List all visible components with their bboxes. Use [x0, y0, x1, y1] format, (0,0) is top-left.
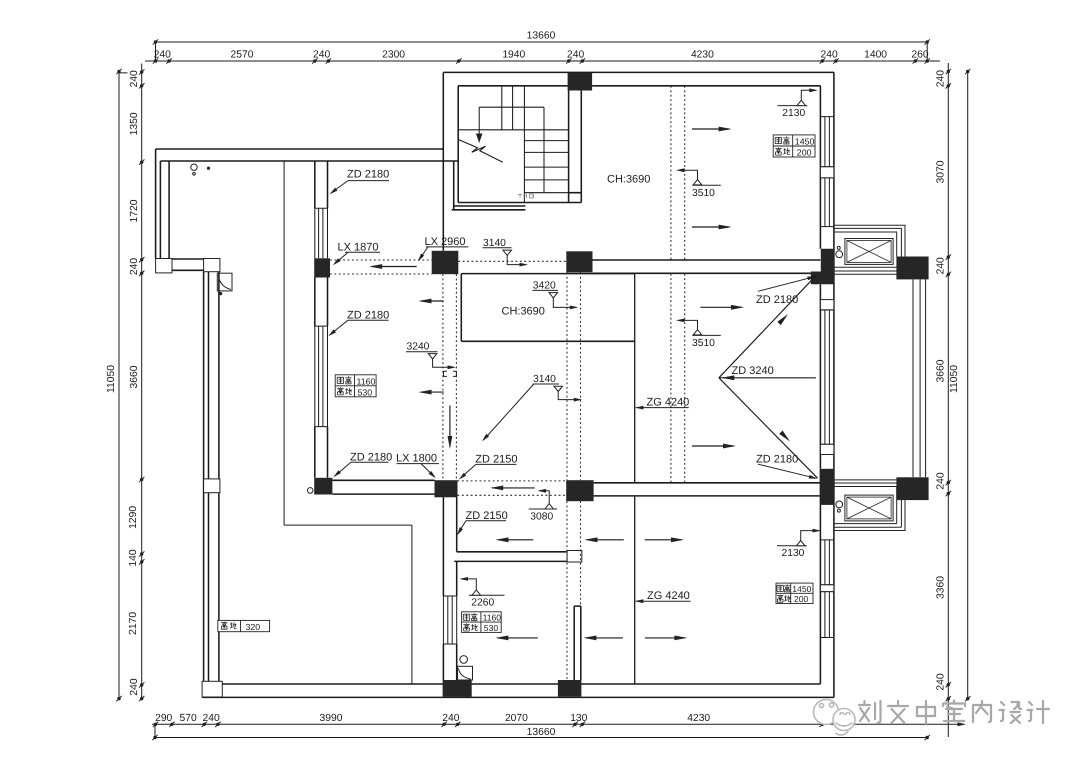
elevation flag 2260: [469, 594, 505, 596]
svg-text:240: 240: [821, 50, 838, 61]
svg-text:200: 200: [794, 594, 809, 604]
svg-text:240: 240: [129, 70, 140, 87]
svg-text:4230: 4230: [691, 50, 714, 61]
arrow left lower room row2 a: [498, 637, 538, 639]
fan arrow diagonal down: [719, 378, 818, 478]
svg-text:3990: 3990: [320, 713, 343, 724]
stairwell east wall with end cap: [569, 91, 582, 203]
right total dimension line 11050: [967, 70, 969, 699]
svg-text:260: 260: [911, 50, 928, 61]
column east corridor lower: [896, 477, 928, 500]
svg-text:2260: 2260: [471, 598, 494, 609]
table 窗高1450/离地200 bottom-right: [776, 583, 813, 603]
svg-text:3420: 3420: [533, 281, 556, 292]
svg-text:320: 320: [246, 622, 261, 632]
top wall outer face: [443, 71, 834, 73]
middle wall y=260-273 east part: [593, 260, 821, 273]
table 窗高1160/离地530 bottom-middle: [462, 612, 502, 633]
column west window wall top: [314, 258, 330, 277]
dashed beam line foyer top: [458, 260, 566, 262]
right wall sill box 3: [820, 444, 834, 454]
door swing upper-left: [217, 273, 232, 291]
svg-text:3070: 3070: [936, 160, 947, 183]
svg-text:ZD 3240: ZD 3240: [732, 365, 774, 377]
dashed beam LX1870 opening: [330, 260, 432, 274]
right wall window middle: [820, 310, 834, 444]
right wall sill box 4: [820, 585, 834, 592]
arrow left lower room row2 b: [586, 637, 623, 639]
svg-text:2570: 2570: [231, 50, 254, 61]
upper elevator car: [845, 239, 893, 265]
svg-text:240: 240: [442, 713, 459, 724]
bottom wall inner face: [222, 683, 820, 685]
toilet circle bottom-left: [460, 656, 468, 664]
stairwell bottom band: [452, 203, 569, 210]
left wing top wall: [156, 149, 459, 161]
stair down arrow: [478, 107, 480, 134]
top wall inner face: [458, 85, 820, 87]
mid-left wall y=480-494: [332, 480, 434, 494]
mid-right wall y=483-496: [594, 483, 821, 496]
interior stub wall x=574-581: [574, 606, 581, 680]
column right wall lower: [820, 469, 835, 505]
svg-text:3510: 3510: [692, 338, 715, 349]
dotted beam lines pair A x=443,456: [443, 274, 457, 480]
svg-text:3660: 3660: [129, 365, 140, 388]
right segment dimension line: [947, 63, 949, 737]
arrow right top-right room 1: [692, 128, 729, 130]
arrow right mid-right room 1: [700, 306, 741, 308]
top segment dimension line: [145, 60, 940, 62]
right wall outer face: [833, 72, 835, 697]
stair treads east flight: [524, 141, 568, 193]
svg-text:3660: 3660: [936, 359, 947, 382]
column west window wall bottom: [314, 478, 332, 495]
svg-text:ZD 2180: ZD 2180: [347, 169, 389, 181]
stairwell west wall: [443, 72, 458, 250]
svg-text:CH:3690: CH:3690: [607, 174, 650, 186]
right wall window lower 2: [820, 592, 834, 638]
column bottom wall west: [443, 680, 472, 697]
stair break line: [459, 140, 503, 163]
svg-text:3510: 3510: [692, 188, 715, 199]
left total dimension line 11050: [119, 72, 128, 699]
right wall window upper 1: [820, 117, 834, 167]
svg-text:240: 240: [203, 713, 220, 724]
table 窗高1450/离地200 top-right: [773, 135, 815, 157]
balcony white column corner: [202, 681, 222, 697]
column foyer bottom-left: [435, 480, 458, 497]
arrow right lower room row2: [645, 637, 685, 639]
svg-text:1450: 1450: [792, 584, 811, 594]
svg-text:240: 240: [936, 673, 947, 690]
svg-text:1350: 1350: [129, 112, 140, 135]
svg-text:570: 570: [180, 713, 197, 724]
table 窗高1160/离地530 west: [335, 375, 376, 397]
arrow left in mid wall band: [493, 487, 535, 489]
svg-text:ZD 2180: ZD 2180: [347, 310, 389, 322]
east corridor wall x=913-926: [913, 279, 926, 477]
column east corridor upper: [896, 257, 928, 280]
bottom total dimension line 13660: [155, 737, 927, 739]
watermark char 刘: [859, 701, 881, 723]
arrow right top-right room 2: [692, 226, 729, 228]
dotted beam lines pair C x=671,685: [671, 86, 685, 483]
column top of stairwell: [568, 73, 593, 91]
svg-text:1400: 1400: [864, 50, 887, 61]
svg-text:CH:3690: CH:3690: [502, 306, 545, 318]
svg-text:130: 130: [570, 713, 587, 724]
column bottom wall east: [558, 680, 582, 697]
svg-text:240: 240: [936, 257, 947, 274]
column foyer bottom-right: [566, 480, 593, 501]
svg-text:1450: 1450: [795, 136, 815, 146]
west room window lower: [315, 326, 328, 427]
stair treads north flight: [502, 86, 513, 130]
svg-text:3240: 3240: [407, 342, 430, 353]
svg-text:LX 1800: LX 1800: [396, 453, 437, 465]
svg-text:240: 240: [567, 50, 584, 61]
watermark char 室: [943, 701, 965, 722]
lamp symbol upper-left room: [191, 164, 197, 170]
lower elevator shaft walls: [834, 477, 905, 486]
window wall x=315-328 mid segments: [315, 278, 328, 478]
svg-text:2170: 2170: [128, 612, 139, 635]
balcony white column top: [204, 259, 220, 272]
arrow left west room 2: [421, 391, 444, 393]
stair flight separation line: [523, 86, 525, 203]
thin partition L-shape x=284: [284, 161, 412, 684]
svg-text:240: 240: [129, 258, 140, 275]
lower elevator car: [845, 495, 893, 521]
svg-text:2130: 2130: [782, 108, 805, 119]
right wall window lower 1: [820, 540, 834, 585]
svg-text:240: 240: [129, 678, 140, 695]
svg-text:ZD 2180: ZD 2180: [756, 294, 798, 306]
wing corner box: [156, 259, 172, 273]
elevation flag 3510 upper: [684, 170, 698, 179]
svg-text:1940: 1940: [502, 50, 525, 61]
table 离地320 bottom-left: [218, 620, 270, 631]
svg-text:3140: 3140: [483, 238, 506, 249]
stair landing edge: [458, 129, 568, 131]
top total dimension line 13660: [156, 41, 928, 43]
svg-text:1160: 1160: [483, 613, 502, 623]
interior wall y=552-561: [454, 552, 567, 562]
right wall sill box 2: [820, 300, 834, 310]
left segment dimension line: [141, 64, 143, 701]
watermark char 内: [973, 701, 991, 722]
right wall window upper 2: [820, 178, 834, 227]
window wall x=315-328 upper room: [315, 161, 328, 208]
door pivot circle near west column: [307, 488, 313, 494]
watermark bird logo: [814, 700, 856, 736]
svg-text:13660: 13660: [527, 727, 556, 738]
svg-text:11050: 11050: [106, 365, 117, 393]
svg-text:200: 200: [797, 148, 812, 158]
watermark char 设: [1000, 702, 1022, 723]
elevation flag 3080: [529, 508, 557, 510]
svg-text:ZD 2150: ZD 2150: [475, 453, 517, 465]
svg-text:11050: 11050: [949, 365, 960, 393]
column LX2960 junction: [432, 251, 459, 274]
balcony white column middle: [204, 479, 220, 493]
svg-text:ZG 4240: ZG 4240: [647, 396, 690, 408]
right wall inner face: [819, 86, 821, 684]
svg-text:240: 240: [936, 472, 947, 489]
column mid top-right of foyer: [566, 251, 592, 272]
arrow down foyer: [449, 406, 451, 447]
arrow left beam opening: [372, 266, 417, 268]
svg-text:2070: 2070: [505, 713, 528, 724]
left wing left wall: [156, 149, 170, 259]
fan arrow diagonal up: [719, 276, 816, 378]
interior partition x=635: [634, 274, 636, 684]
arrow left west room 1: [421, 300, 444, 302]
left wing bottom wall: [172, 259, 204, 270]
upper elevator shaft walls: [834, 225, 905, 256]
bottom segment dimension line: [152, 723, 963, 725]
svg-text:3360: 3360: [936, 576, 947, 599]
svg-text:3140: 3140: [533, 374, 556, 385]
watermark char 计: [1028, 701, 1050, 723]
svg-text:LX 1870: LX 1870: [338, 242, 379, 254]
svg-text:1160: 1160: [357, 376, 376, 386]
bottom total: [523, 727, 559, 738]
fan arrow line ZD3240 horizontal: [719, 377, 816, 379]
svg-text:3080: 3080: [530, 512, 553, 523]
wall end cap x=567-582: [567, 551, 582, 563]
svg-text:ZD 2180: ZD 2180: [756, 453, 798, 465]
dashed beam lines foyer bottom: [458, 481, 567, 495]
svg-text:240: 240: [936, 70, 947, 87]
svg-text:240: 240: [154, 50, 171, 61]
arrow right mid-right room 2: [692, 445, 734, 447]
svg-text:1290: 1290: [128, 506, 139, 529]
svg-text:2300: 2300: [382, 50, 405, 61]
elevation flag 3510 lower: [684, 320, 698, 329]
arrow left lower room row1 b: [587, 539, 624, 541]
svg-text:240: 240: [313, 50, 330, 61]
svg-text:ZD 2180: ZD 2180: [350, 451, 392, 463]
west room window upper: [315, 208, 328, 258]
bottom wall outer face: [202, 696, 834, 698]
dotted beam lines pair B x=567,580: [567, 273, 581, 681]
bulkhead CH3690 box: [461, 274, 634, 342]
svg-text:ZG 4240: ZG 4240: [647, 590, 690, 602]
svg-text:1720: 1720: [129, 199, 140, 222]
right wall sill box 1: [820, 167, 834, 178]
south wall window x=443-457: [443, 596, 456, 644]
svg-text:530: 530: [484, 623, 499, 633]
arrow right lower room row1: [645, 539, 682, 541]
stair tiny annotation: [518, 194, 534, 198]
watermark char 文: [888, 701, 908, 723]
lower elevator door symbol: [836, 501, 843, 508]
svg-text:530: 530: [358, 387, 373, 397]
column right wall upper (L shape): [811, 249, 834, 285]
elevation flag 2130 lower: [777, 545, 807, 547]
watermark char 中: [917, 701, 935, 724]
svg-text:290: 290: [155, 713, 172, 724]
svg-text:140: 140: [128, 549, 139, 566]
arrow left lower room row1 a: [498, 539, 534, 541]
stair well edge: [479, 107, 544, 193]
wall band x=443-457 below foyer: [443, 497, 456, 680]
upper elevator door symbol: [837, 246, 840, 249]
svg-text:13660: 13660: [527, 30, 556, 41]
beam bracket symbol between pair A: [444, 371, 457, 376]
elevation flag 2130 upper: [778, 105, 808, 107]
door swing bottom: [458, 666, 473, 680]
svg-text:ZD 2150: ZD 2150: [466, 510, 508, 522]
balcony west wall: [204, 272, 219, 684]
svg-text:4230: 4230: [687, 713, 710, 724]
svg-text:2130: 2130: [782, 548, 805, 559]
